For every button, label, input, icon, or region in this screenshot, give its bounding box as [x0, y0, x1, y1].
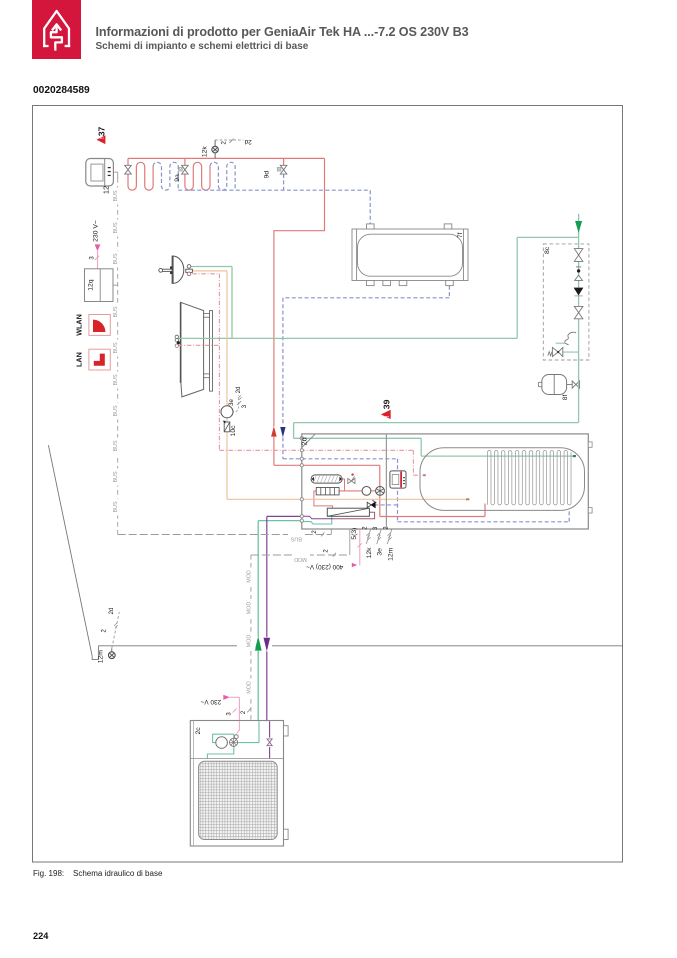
svg-text:230 V~: 230 V~: [200, 698, 221, 705]
svg-text:2: 2: [241, 710, 247, 714]
svg-text:BUS: BUS: [290, 535, 301, 541]
svg-text:400 (230) V~: 400 (230) V~: [306, 563, 343, 570]
svg-text:12m: 12m: [97, 650, 104, 664]
svg-text:3: 3: [373, 526, 379, 530]
svg-text:2d: 2d: [109, 608, 115, 615]
svg-text:8f: 8f: [562, 395, 569, 401]
svg-text:LAN: LAN: [74, 352, 83, 367]
svg-text:BUS: BUS: [113, 253, 119, 264]
svg-text:BUS: BUS: [113, 501, 119, 512]
svg-text:M: M: [278, 168, 281, 172]
svg-text:2d: 2d: [244, 138, 252, 145]
svg-text:12m: 12m: [387, 547, 394, 561]
svg-text:!: !: [385, 415, 391, 417]
svg-text:BUS: BUS: [113, 306, 119, 317]
svg-text:2: 2: [222, 140, 228, 144]
svg-text:2: 2: [101, 628, 107, 632]
svg-text:9d: 9d: [263, 171, 270, 179]
svg-text:8c: 8c: [544, 246, 551, 254]
svg-text:2d: 2d: [299, 437, 308, 445]
svg-text:BUS: BUS: [113, 405, 119, 416]
svg-text:39: 39: [381, 399, 391, 409]
svg-text:12: 12: [102, 186, 111, 194]
svg-text:12q: 12q: [87, 279, 94, 291]
svg-text:3: 3: [226, 712, 232, 716]
svg-text:9a: 9a: [174, 174, 181, 182]
svg-text:37: 37: [97, 127, 107, 137]
svg-text:230 V~: 230 V~: [92, 220, 99, 242]
svg-text:3e: 3e: [377, 548, 384, 556]
svg-text:2c: 2c: [195, 727, 202, 735]
svg-text:7f: 7f: [457, 232, 464, 238]
svg-text:10c: 10c: [230, 425, 237, 437]
svg-text:3e: 3e: [229, 399, 235, 406]
svg-text:BUS: BUS: [113, 222, 119, 233]
svg-text:BUS: BUS: [113, 342, 119, 353]
svg-text:BUS: BUS: [113, 190, 119, 201]
svg-text:2: 2: [324, 549, 330, 553]
svg-text:2: 2: [363, 526, 369, 530]
svg-text:3: 3: [90, 256, 96, 260]
svg-text:MOD: MOD: [246, 681, 252, 694]
svg-text:12k: 12k: [201, 146, 208, 158]
svg-text:3: 3: [242, 404, 248, 408]
svg-text:12k: 12k: [366, 547, 373, 559]
svg-text:2d: 2d: [236, 387, 242, 394]
svg-text:BUS: BUS: [113, 471, 119, 482]
svg-text:MOD: MOD: [294, 556, 307, 562]
svg-text:BUS: BUS: [113, 440, 119, 451]
svg-text:BUS: BUS: [113, 374, 119, 385]
svg-text:MOD: MOD: [246, 570, 252, 583]
svg-text:MOD: MOD: [246, 602, 252, 615]
svg-text:WLAN: WLAN: [74, 314, 83, 336]
svg-text:5(3): 5(3): [351, 528, 358, 540]
svg-text:MOD: MOD: [246, 635, 252, 648]
svg-text:!: !: [100, 137, 106, 139]
svg-text:M: M: [179, 168, 182, 172]
svg-text:2: 2: [312, 530, 318, 534]
